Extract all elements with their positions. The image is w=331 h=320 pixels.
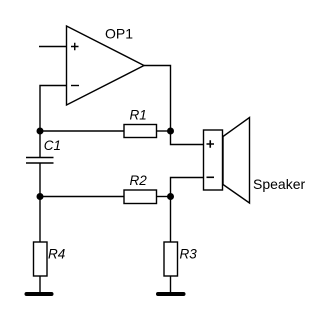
svg-text:R4: R4 [48, 247, 65, 262]
svg-text:OP1: OP1 [105, 26, 133, 42]
svg-text:R2: R2 [130, 173, 148, 188]
svg-text:Speaker: Speaker [253, 176, 305, 192]
svg-text:R1: R1 [130, 108, 147, 123]
svg-text:C1: C1 [44, 138, 61, 153]
svg-text:R3: R3 [180, 247, 198, 262]
